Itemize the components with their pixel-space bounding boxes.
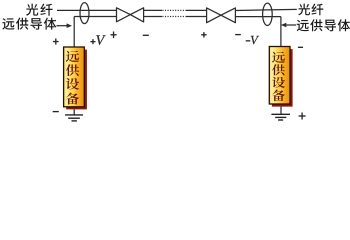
cable sheath ellipse (right)	[263, 3, 273, 25]
repeater symbol (left bowtie)	[117, 8, 144, 22]
device box right: 3D shadow	[272, 49, 293, 107]
wire: conductor line right section	[235, 16, 281, 18]
device box right: vertical text 远供设备	[272, 52, 285, 101]
polarity: + under right bowtie	[201, 32, 206, 37]
label: optical fiber (left) 光纤	[26, 4, 52, 16]
device box left: 3D shadow	[66, 50, 87, 110]
wire: left vertical drop to left device	[73, 17, 75, 48]
label: -V at right	[246, 36, 259, 44]
cable sheath ellipse (left)	[80, 3, 89, 24]
ground symbol left	[65, 109, 83, 121]
label: remote feeding conductor (right) 远供导体	[297, 19, 350, 31]
label: remote feeding conductor (left) 远供导体	[2, 18, 56, 30]
polarity: - at right device top terminal	[298, 46, 303, 48]
arrow: pointer from 远供导体 (left) to conductor drop	[57, 23, 73, 28]
wire: conductor line left section	[74, 16, 116, 18]
wire: conductor line middle (solid-dotted-solid)	[144, 16, 207, 18]
wire: fiber line middle (solid-dotted-solid)	[144, 9, 207, 11]
polarity: - under right bowtie	[235, 34, 241, 36]
device box left: face	[64, 47, 85, 107]
polarity: - under left bowtie	[143, 34, 149, 36]
repeater symbol (right bowtie)	[207, 8, 236, 23]
wire: fiber line left section	[57, 9, 117, 11]
wire: right vertical drop to right device	[280, 17, 282, 47]
polarity: + at right device bottom terminal	[299, 113, 306, 120]
polarity: + at left device top terminal	[53, 39, 59, 45]
polarity: - at left device bottom terminal	[53, 111, 59, 113]
polarity: + under left bowtie	[111, 32, 117, 39]
label: +V at left	[90, 35, 105, 44]
arrow: pointer from 远供导体 (right) to conductor drop	[281, 23, 296, 28]
wire: fiber line right section	[235, 9, 296, 10]
device box right: face	[269, 47, 290, 105]
device box left: vertical text 远供设备	[66, 51, 79, 105]
label: optical fiber (right) 光纤	[298, 4, 323, 16]
ground symbol right	[271, 107, 290, 120]
